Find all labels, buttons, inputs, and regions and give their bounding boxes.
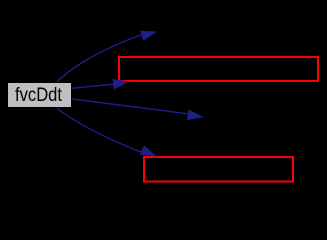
- edge fvcDdt to top node: [56, 31, 156, 83]
- edge fvcDdt to box2: [56, 108, 156, 157]
- node fvcDdt (current, grey): [8, 83, 72, 108]
- edge fvcDdt to box1: [71, 80, 128, 89]
- node box1 (red, truncated callee): [119, 57, 318, 81]
- node box2 (red, truncated callee): [144, 157, 293, 182]
- svg-text:fvcDdt: fvcDdt: [15, 84, 62, 106]
- edge fvcDdt to middle node: [71, 99, 203, 120]
